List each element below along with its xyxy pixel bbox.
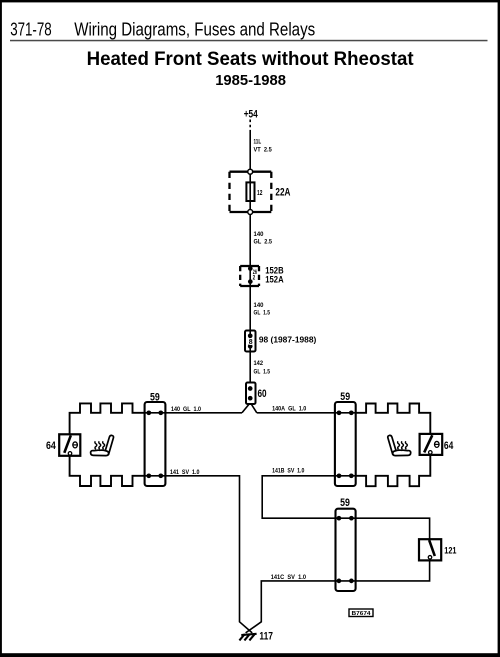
svg-text:22A: 22A: [275, 187, 290, 199]
svg-text:140: 140: [254, 302, 264, 309]
svg-text:121: 121: [444, 545, 456, 555]
svg-text:GL 1.5: GL 1.5: [254, 369, 271, 376]
svg-text:Heated Front Seats without Rhe: Heated Front Seats without Rheostat: [87, 49, 415, 70]
svg-text:64: 64: [444, 440, 453, 452]
svg-text:98 (1987-1988): 98 (1987-1988): [259, 335, 317, 345]
svg-text:VT 2.5: VT 2.5: [254, 147, 272, 154]
svg-text:59: 59: [150, 392, 160, 404]
svg-text:B7674: B7674: [352, 611, 372, 617]
svg-text:140A GL 1.0: 140A GL 1.0: [272, 405, 306, 412]
svg-text:GL 2.5: GL 2.5: [254, 238, 273, 245]
svg-text:140: 140: [254, 231, 264, 238]
svg-text:11L: 11L: [254, 139, 262, 146]
svg-text:140 GL 1.0: 140 GL 1.0: [171, 406, 201, 413]
svg-text:8: 8: [249, 337, 253, 346]
svg-text:117: 117: [259, 631, 273, 643]
svg-text:GL 1.5: GL 1.5: [254, 310, 271, 317]
svg-text:1985-1988: 1985-1988: [215, 72, 286, 89]
svg-text:60: 60: [258, 388, 267, 400]
svg-text:59: 59: [340, 497, 350, 509]
svg-text:141C SV 1.0: 141C SV 1.0: [271, 574, 306, 581]
svg-text:142: 142: [254, 360, 264, 367]
svg-text:64: 64: [46, 440, 56, 452]
svg-text:12: 12: [257, 188, 262, 197]
svg-text:371-78: 371-78: [10, 18, 52, 39]
svg-text:152A: 152A: [265, 275, 284, 285]
svg-text:+54: +54: [244, 109, 259, 121]
svg-text:Wiring Diagrams, Fuses and Rel: Wiring Diagrams, Fuses and Relays: [74, 18, 315, 39]
svg-text:141 SV 1.0: 141 SV 1.0: [170, 469, 200, 476]
svg-text:59: 59: [340, 391, 350, 403]
svg-text:141B SV 1.0: 141B SV 1.0: [272, 468, 304, 475]
